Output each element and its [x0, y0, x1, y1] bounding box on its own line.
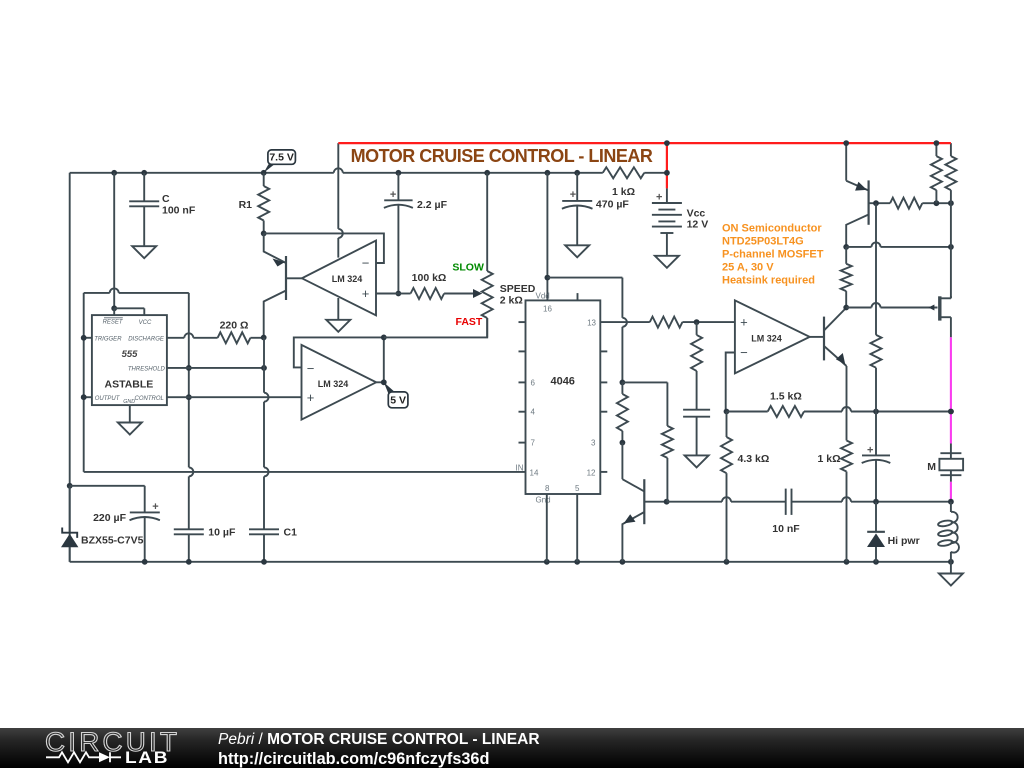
svg-text:SLOW: SLOW — [452, 262, 484, 274]
bottom rail junction dots — [142, 559, 148, 565]
mosfet M1 P-channel — [938, 296, 941, 320]
resistor parallel right — [950, 143, 952, 156]
node junction dots on top rail — [111, 170, 117, 176]
svg-text:16: 16 — [543, 305, 552, 314]
svg-text:220 Ω: 220 Ω — [220, 320, 249, 332]
wire TRIGGER stub — [84, 337, 92, 339]
wire red Vcc rail — [338, 142, 951, 144]
svg-text:NTD25P03LT4G: NTD25P03LT4G — [722, 236, 804, 248]
svg-text:−: − — [362, 256, 370, 271]
svg-text:1 kΩ: 1 kΩ — [817, 453, 840, 465]
wire FAST net to pot bottom — [384, 318, 487, 337]
zener diode BZX55-C7V5 — [69, 486, 71, 533]
node R1 bottom junction — [261, 231, 267, 237]
op-amp U2 LM324 — [735, 300, 810, 373]
op-amp U3 LM324 — [302, 345, 377, 420]
resistor 1k top — [603, 167, 645, 178]
capacitor 10uF — [174, 528, 204, 530]
wire DISCHARGE — [167, 337, 184, 339]
footer bar — [0, 728, 1024, 768]
svg-text:470 µF: 470 µF — [596, 199, 629, 211]
label 7.5V pointer — [264, 164, 275, 173]
wire U2 - input — [726, 353, 735, 412]
node motor bottom junction — [948, 499, 954, 505]
capacitor C 100 nF — [129, 200, 159, 202]
ground below battery — [655, 256, 679, 268]
wire base net y501.7 — [667, 501, 722, 503]
svg-text:12 V: 12 V — [687, 219, 709, 231]
node U1 + input junction — [396, 291, 402, 297]
capacitor 2.2uF lead — [397, 173, 399, 201]
wire left rail — [69, 173, 71, 562]
svg-text:Vdd: Vdd — [536, 292, 550, 301]
svg-text:10 µF: 10 µF — [208, 526, 236, 538]
svg-text:5 V: 5 V — [390, 395, 406, 407]
svg-text:13: 13 — [587, 318, 596, 327]
wire U2 output to Q3 base — [810, 336, 824, 338]
wire y246.9 — [846, 246, 871, 248]
capacitor x876 electrolytic — [875, 412, 877, 456]
ground below op-amp U1 — [326, 320, 350, 332]
node THRESHOLD junction — [186, 365, 192, 371]
wire pin13 net — [600, 321, 650, 323]
wire 555 output loop left — [83, 293, 85, 472]
svg-text:RESET: RESET — [103, 319, 124, 325]
node 1.5k junctions — [873, 409, 879, 415]
wire U1 V- to ground — [337, 298, 339, 320]
svg-text:2 kΩ: 2 kΩ — [500, 294, 523, 306]
diode Hi pwr — [875, 502, 877, 532]
svg-text:LM 324: LM 324 — [332, 274, 363, 284]
IC 4046 box — [526, 300, 601, 494]
wire op-amp U1 inverting input loop — [264, 233, 384, 263]
svg-text:2.2 µF: 2.2 µF — [417, 199, 448, 211]
transistor Q3 NPN — [823, 317, 825, 361]
node x876 y501.7 junction — [873, 499, 879, 505]
resistor R1 — [263, 173, 265, 186]
wire pin3 to transistor Q2 — [621, 443, 623, 480]
node U3 output junction — [381, 379, 387, 385]
node pin13 junction — [694, 319, 700, 325]
svg-text:+: + — [570, 189, 576, 201]
svg-text:P-channel MOSFET: P-channel MOSFET — [722, 249, 824, 261]
svg-text:−: − — [740, 345, 748, 360]
resistor 220 ohm — [218, 332, 251, 343]
node x622 junction — [620, 380, 626, 386]
wire 555 RESET/VCC rail drop — [113, 173, 115, 308]
resistor x846 gate divider — [845, 247, 847, 264]
svg-text:+: + — [656, 192, 662, 204]
battery V1 Vcc 12V — [666, 188, 668, 203]
svg-text:R1: R1 — [239, 199, 253, 211]
svg-text:100 nF: 100 nF — [162, 204, 196, 216]
node Q4 collector junction — [843, 244, 849, 250]
wire bottom ground rail — [70, 561, 951, 563]
IC 4046 top stub — [577, 293, 579, 300]
svg-text:100 kΩ: 100 kΩ — [412, 272, 447, 284]
ground below inductor — [950, 562, 952, 574]
svg-text:6: 6 — [531, 378, 536, 387]
svg-text:4046: 4046 — [550, 375, 574, 387]
wire 220uF branch — [67, 483, 73, 489]
ground below 555 — [118, 423, 142, 435]
IC 555 box — [92, 315, 167, 405]
inductor L1 — [950, 502, 952, 512]
svg-text:+: + — [740, 315, 748, 330]
svg-text:GND: GND — [123, 399, 135, 405]
node U3 feedback junction — [381, 335, 387, 341]
svg-text:FAST: FAST — [456, 316, 483, 328]
IC 4046 left pin stubs — [519, 321, 526, 323]
resistor 4.3k chain — [724, 409, 730, 415]
wire gate net y307.5 — [846, 307, 871, 309]
svg-text:C1: C1 — [284, 526, 298, 538]
resistor parallel left — [935, 143, 937, 156]
wire C1 net vertical x264 — [261, 335, 267, 341]
transistor Q4 PNP — [867, 180, 869, 224]
wire x876 chain — [875, 203, 877, 335]
node gate junction — [843, 305, 849, 311]
svg-text:OUTPUT: OUTPUT — [95, 396, 121, 402]
ground below 470uF — [565, 245, 589, 257]
ground below capacitor C — [132, 246, 156, 258]
svg-text:3: 3 — [591, 439, 596, 448]
footer CircuitLab logo — [45, 727, 180, 758]
wire magenta mosfet source — [950, 337, 952, 443]
node mosfet drain junction — [948, 244, 954, 250]
svg-text:TRIGGER: TRIGGER — [94, 336, 122, 342]
resistor 100k — [411, 288, 445, 299]
node RESET junction — [111, 305, 117, 311]
node CONTROL junction — [186, 394, 192, 400]
resistor 1.5k — [768, 406, 804, 417]
resistor x622 — [617, 394, 628, 431]
svg-text:14: 14 — [530, 468, 539, 477]
footer author/title text — [218, 731, 540, 749]
svg-text:ASTABLE: ASTABLE — [104, 379, 153, 391]
svg-text:8: 8 — [545, 484, 550, 493]
svg-text:10 nF: 10 nF — [772, 523, 800, 535]
potentiometer wiper arrow — [473, 289, 482, 298]
wire 4046 pin8 to ground rail — [546, 494, 548, 562]
svg-text:25 A, 30 V: 25 A, 30 V — [722, 262, 774, 274]
svg-text:220 µF: 220 µF — [93, 512, 126, 524]
svg-text:4: 4 — [531, 408, 536, 417]
svg-text:5: 5 — [575, 484, 580, 493]
svg-text:ON Semiconductor: ON Semiconductor — [722, 223, 822, 235]
node base resistor junctions — [934, 200, 940, 206]
svg-text:7.5 V: 7.5 V — [269, 152, 294, 164]
svg-text:7: 7 — [531, 439, 536, 448]
transistor Q1 PNP — [285, 256, 287, 300]
wire Q3 emitter chain x846.5 — [846, 366, 848, 441]
svg-text:LM 324: LM 324 — [751, 333, 782, 343]
capacitor 220uF — [130, 511, 160, 513]
node red rail dots — [664, 140, 670, 146]
wire Vdd to pin13 resistor chain — [547, 277, 622, 279]
svg-text:+: + — [152, 501, 158, 513]
svg-text:VCC: VCC — [139, 320, 152, 326]
wire U3 feedback loop — [294, 337, 384, 382]
wire magenta below motor — [950, 482, 952, 502]
svg-text:Hi pwr: Hi pwr — [888, 535, 920, 547]
svg-text:M: M — [927, 461, 936, 473]
node motor top junction — [948, 409, 954, 415]
svg-text:C: C — [162, 193, 170, 205]
wire 4046 pin5 to ground rail — [576, 494, 578, 562]
potentiometer SPEED 2k — [486, 173, 488, 271]
wire THRESHOLD-CONTROL drop x188.8 — [188, 293, 190, 397]
wire THRESHOLD link — [167, 367, 264, 369]
label 5V box — [388, 392, 408, 408]
svg-text:DISCHARGE: DISCHARGE — [128, 337, 165, 343]
node pin3 junction — [620, 440, 626, 446]
capacitor 470uF — [576, 173, 578, 201]
svg-text:SPEED: SPEED — [500, 283, 536, 295]
svg-text:THRESHOLD: THRESHOLD — [128, 367, 166, 373]
svg-text:Gnd: Gnd — [536, 496, 551, 505]
wire U1 V+ supply from red rail — [337, 143, 339, 229]
wire OUTPUT stub — [84, 396, 92, 398]
resistor x696 chain — [696, 322, 698, 335]
wire x667 collector chain — [622, 381, 667, 383]
label 5V pointer — [384, 382, 395, 394]
ground below x696 — [685, 455, 709, 467]
svg-text:1.5 kΩ: 1.5 kΩ — [770, 391, 802, 403]
capacitor C1 — [249, 528, 279, 530]
svg-text:1 kΩ: 1 kΩ — [612, 186, 635, 198]
footer url — [218, 750, 489, 769]
svg-text:CONTROL: CONTROL — [135, 396, 164, 402]
svg-text:4.3 kΩ: 4.3 kΩ — [738, 453, 770, 465]
wire 555 GND pin — [129, 405, 131, 422]
svg-text:IN: IN — [516, 463, 524, 472]
svg-text:+: + — [390, 189, 396, 201]
svg-text:+: + — [362, 286, 370, 301]
wire top rail 7.5V net — [70, 172, 334, 174]
wire 4046 Vdd drop — [546, 173, 548, 301]
node Vdd junction — [545, 275, 551, 281]
wire mosfet drain drop — [950, 203, 952, 247]
svg-text:MOTOR CRUISE CONTROL - LINEAR: MOTOR CRUISE CONTROL - LINEAR — [351, 146, 653, 166]
svg-text:Heatsink required: Heatsink required — [722, 275, 815, 287]
mosfet M1 gate arrow — [928, 305, 934, 311]
transistor Q2 NPN mirrored — [643, 479, 645, 524]
IC 4046 right pin stubs — [600, 350, 607, 352]
svg-text:+: + — [307, 390, 315, 405]
op-amp U1 LM324 — [302, 241, 376, 316]
svg-text:+: + — [867, 444, 873, 456]
svg-text:−: − — [307, 361, 315, 376]
capacitor x696 — [683, 409, 710, 411]
label 7.5V box — [268, 150, 296, 164]
resistor Q4 base — [890, 198, 922, 209]
svg-text:BZX55-C7V5: BZX55-C7V5 — [81, 535, 144, 547]
svg-text:12: 12 — [587, 468, 596, 477]
node Q4 base junction — [873, 200, 879, 206]
capacitor 10nF — [785, 489, 787, 515]
capacitor C lead — [143, 173, 145, 202]
node Q2 base junction — [664, 499, 670, 505]
svg-text:555: 555 — [122, 349, 139, 360]
wire 1.5k net y411.5 — [727, 411, 768, 413]
wire CONTROL link — [167, 396, 302, 398]
wire U1 + input — [376, 293, 398, 295]
capacitor 2.2uF — [384, 199, 412, 201]
motor M — [950, 444, 952, 454]
svg-text:LM 324: LM 324 — [318, 379, 349, 389]
wire IN net to 4046 pin14 — [84, 471, 526, 473]
resistor pin13 — [650, 317, 683, 328]
wire RESET-VCC link — [114, 307, 144, 309]
